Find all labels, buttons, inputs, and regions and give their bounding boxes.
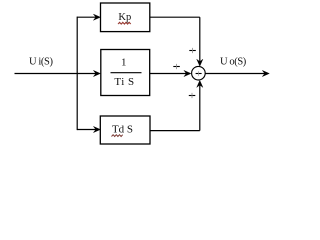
wire Kp output horizontal (150, 16, 200, 18)
wire arrow into summer from left (184, 70, 191, 76)
squiggle under Td (112, 135, 123, 137)
wire output horizontal (205, 73, 268, 75)
wire right bottom vertical (199, 82, 201, 131)
wire arrow into summer from top (197, 59, 203, 66)
wire arrow into Kp block (93, 14, 100, 20)
plus sign top input (189, 48, 196, 53)
plus sign inside summer (196, 73, 202, 75)
svg-text:Kp: Kp (118, 12, 131, 23)
wire output arrowhead (262, 70, 269, 76)
squiggle under Kp (118, 22, 131, 24)
fraction bar (111, 72, 142, 74)
wire input horizontal (15, 73, 100, 75)
block Kp (101, 3, 150, 32)
wire top branch horizontal (77, 16, 99, 18)
wire arrow into integrator block (93, 70, 100, 76)
wire integrator output horizontal (150, 73, 190, 75)
svg-text:Ti S: Ti S (114, 76, 134, 88)
svg-text:Td S: Td S (112, 124, 133, 136)
svg-text:U i(S): U i(S) (29, 57, 53, 68)
wire arrow into summer from bottom (197, 80, 203, 87)
wire right top vertical (199, 17, 201, 64)
wire bottom branch horizontal (77, 129, 99, 131)
block integrator 1/TiS (101, 50, 150, 96)
plus sign bottom input (189, 93, 196, 98)
block derivative TdS (100, 116, 150, 144)
plus sign left input (173, 64, 180, 69)
svg-text:1: 1 (121, 56, 127, 68)
summing junction circle (192, 66, 206, 80)
wire Td output horizontal (150, 130, 200, 132)
wire branch vertical (76, 17, 78, 131)
svg-text:U o(S): U o(S) (220, 57, 247, 68)
wire arrow into Td block (93, 126, 100, 132)
